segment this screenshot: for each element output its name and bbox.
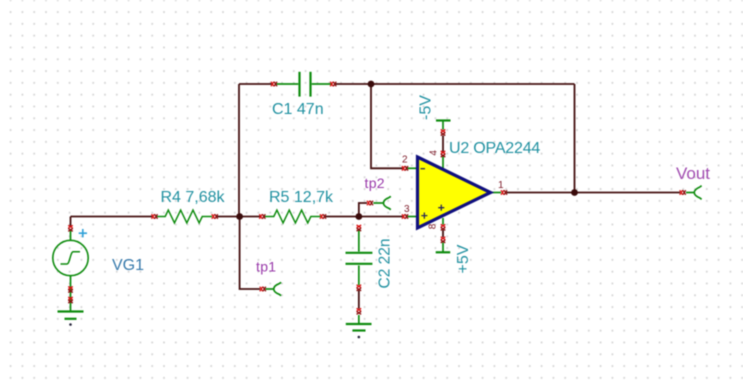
op-amp U2 triangle (418, 157, 491, 228)
svg-text:1: 1 (498, 180, 504, 191)
svg-text:8: 8 (427, 223, 438, 229)
resistor R5 (265, 210, 321, 223)
svg-text:2: 2 (402, 155, 408, 166)
ground below VG1 (58, 312, 84, 326)
source VG1 circle (53, 240, 88, 275)
x marks VG1 (68, 225, 73, 231)
wire: C2 lower link (358, 291, 360, 309)
op-amp input minus mark (421, 168, 426, 170)
-5V supply bar (436, 121, 451, 130)
op-amp input plus mark (421, 213, 427, 219)
wire: tp2 branch (359, 203, 367, 217)
pin 4 stub (442, 157, 444, 169)
pin 8 stub (442, 218, 444, 225)
VG1 top pin (70, 231, 72, 241)
wire: op-amp pin4 link (442, 136, 444, 152)
svg-text:C2 22n: C2 22n (376, 239, 393, 289)
svg-text:U2 OPA2244: U2 OPA2244 (449, 140, 540, 157)
svg-text:tp1: tp1 (256, 259, 276, 275)
VG1 plus polarity mark (79, 229, 87, 237)
VG1 bottom pin (70, 275, 72, 311)
wire: inverting feedback drop to pin2 (371, 84, 403, 168)
pin 2 stub (408, 167, 417, 169)
op-amp supply plus mark (438, 205, 444, 211)
VG1 waveform (61, 252, 81, 264)
svg-text:C1 47n: C1 47n (272, 101, 324, 118)
wire: R4 to R5 (through junction) (217, 216, 260, 218)
wire: top wire left of C1 (239, 83, 272, 85)
wire: VG1 to R4 (71, 216, 153, 218)
svg-text:4: 4 (428, 150, 439, 156)
x marks C2 (357, 225, 362, 231)
+5V supply bar (436, 243, 451, 253)
svg-text:VG1: VG1 (112, 257, 144, 274)
wire: top wire right of C1 to top-right corner (336, 83, 575, 85)
svg-text:-5V: -5V (418, 95, 435, 120)
x marks R5 (259, 214, 265, 219)
wire: left vertical C1 branch (junction R4/R5 up to top wire) (238, 84, 240, 217)
capacitor C2 (346, 231, 373, 286)
wire: R5 to pin3 (through junction) (326, 216, 403, 218)
ground below C2 (346, 315, 372, 338)
svg-text:R5 12,7k: R5 12,7k (269, 189, 334, 206)
node R4/R5 junction (236, 213, 243, 220)
x marks op-amp pins (402, 166, 408, 171)
wire: right vertical down to output (574, 84, 576, 193)
terminal hook Vout (686, 186, 702, 200)
terminal hook tp2 (373, 196, 390, 209)
x marks R4 (152, 214, 158, 219)
capacitor C1 (277, 72, 332, 97)
svg-text:3: 3 (404, 204, 410, 215)
wire: output wire pin1 to Vout (507, 192, 681, 194)
svg-text:tp2: tp2 (365, 175, 385, 191)
wire: VG1 top stub (70, 217, 72, 227)
resistor R4 (157, 210, 212, 223)
terminal hook tp1 (266, 282, 282, 295)
wire: tp1 branch (240, 217, 260, 290)
node output junction (571, 189, 578, 196)
pin 1 stub (492, 192, 502, 194)
node C2/tp2 junction (355, 213, 362, 220)
svg-text:+5V: +5V (455, 244, 472, 273)
x marks terminals (260, 287, 266, 292)
svg-text:Vout: Vout (676, 164, 710, 183)
svg-text:R4 7,68k: R4 7,68k (161, 189, 226, 206)
wire: op-amp pin8 link (442, 230, 444, 237)
pin 3 stub (408, 216, 417, 218)
node feedback top junction (368, 81, 375, 88)
x marks C1 (271, 82, 277, 87)
